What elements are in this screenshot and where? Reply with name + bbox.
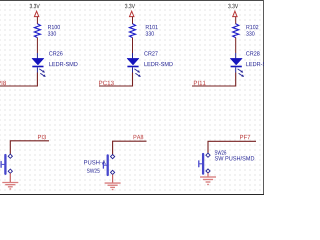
value label SW PUSH/SMD xyxy=(215,156,254,160)
designator label R101 xyxy=(146,25,158,29)
wire cathode to net, x 0-37.4 xyxy=(0,73,37,87)
switch SW25 pushbutton xyxy=(103,155,114,176)
wire 3.3V to R101 xyxy=(132,17,134,24)
wire CR27 anode xyxy=(132,38,134,53)
net label PI11 xyxy=(194,81,206,85)
value label 330 xyxy=(146,31,154,35)
value label SW25 xyxy=(87,169,100,173)
net label PA8 xyxy=(134,135,144,139)
designator label PUSH-A xyxy=(84,160,106,164)
wire cathode to net, x 192-235.7 xyxy=(192,73,236,87)
resistor R102 xyxy=(233,24,239,38)
wire 3.3V to R100 xyxy=(36,17,38,24)
power +3.3V net P2 xyxy=(125,4,135,17)
value label LEDR-SMD xyxy=(246,62,274,66)
net label PI8 xyxy=(0,81,6,85)
LED CR26 xyxy=(32,53,46,77)
wire cathode to net, x 99-132.5 xyxy=(99,73,133,87)
wire net PI3 to SW24 xyxy=(10,141,49,154)
net label PI3 xyxy=(38,135,46,139)
wire 3.3V to R102 xyxy=(235,17,237,24)
ground xyxy=(2,173,18,189)
value label LEDR-SMD xyxy=(49,62,77,66)
switch SW24 pushbutton xyxy=(1,154,12,174)
designator label CR26 xyxy=(49,51,62,55)
resistor R100 xyxy=(34,24,40,38)
value label 330 xyxy=(246,31,254,35)
wire net PF7 to SW26 xyxy=(208,141,256,153)
value label LEDR-SMD xyxy=(144,62,172,66)
ground xyxy=(200,173,216,184)
designator label R102 xyxy=(246,25,258,29)
ground xyxy=(105,175,121,190)
net label PF7 xyxy=(240,135,250,139)
LED CR27 xyxy=(127,53,141,77)
designator label SW26 xyxy=(215,150,227,154)
designator label R100 xyxy=(48,25,60,29)
wire CR28 anode xyxy=(235,38,237,53)
wire net PA8 to SW25 xyxy=(113,141,147,154)
power +3.3V net P1 xyxy=(30,4,40,17)
switch SW26 pushbutton xyxy=(199,153,210,174)
power +3.3V net P3 xyxy=(228,4,238,17)
LED CR28 xyxy=(230,53,244,77)
resistor R101 xyxy=(130,24,136,38)
designator label CR28 xyxy=(246,51,259,55)
wire CR26 anode xyxy=(36,38,38,53)
designator label CR27 xyxy=(144,51,157,55)
net label PC13 xyxy=(99,81,114,85)
value label 330 xyxy=(48,31,56,35)
